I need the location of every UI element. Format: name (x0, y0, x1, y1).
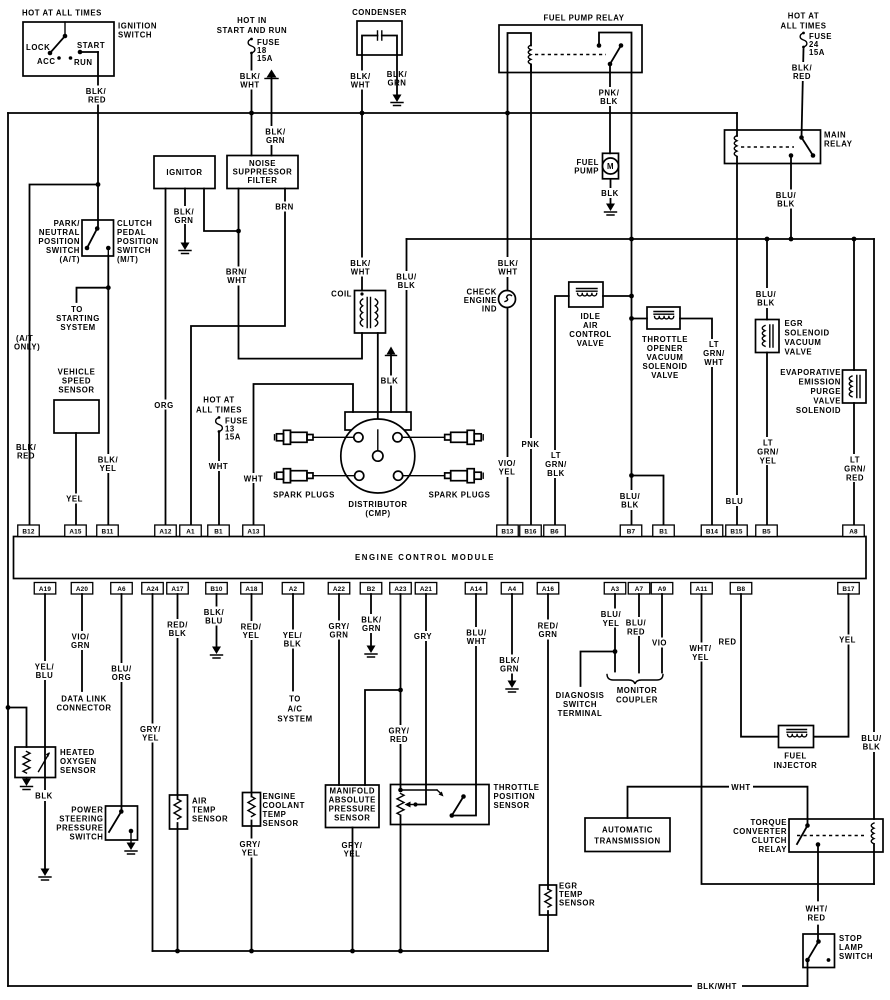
label BLK/RED fuse24 (790, 62, 815, 81)
label power steering pressure switch (56, 806, 103, 842)
svg-text:MONITOR: MONITOR (617, 686, 658, 695)
wire A4 BLK/GRN ground (511, 594, 513, 680)
svg-text:THROTTLE: THROTTLE (494, 783, 540, 792)
fuel pump M1 (574, 153, 618, 179)
svg-text:DIAGNOSIS: DIAGNOSIS (556, 691, 605, 700)
label YEL/BLU A19 (31, 661, 59, 680)
pin A14 ECM bottom (465, 583, 487, 595)
svg-text:LT: LT (763, 439, 773, 448)
svg-text:SWITCH: SWITCH (46, 246, 80, 255)
svg-text:B11: B11 (102, 529, 114, 536)
label RED/BLK A17 (165, 619, 191, 638)
svg-text:GRN: GRN (71, 641, 90, 650)
svg-text:WHT: WHT (227, 276, 246, 285)
pin A4 ECM bottom (501, 583, 523, 595)
label VIO A9 (649, 638, 671, 648)
label BLK/BLU B10 (202, 607, 228, 626)
pin A2 ECM bottom (282, 583, 304, 595)
label YEL B17 (837, 635, 858, 645)
svg-text:IDLE: IDLE (581, 312, 601, 321)
svg-text:PARK/: PARK/ (54, 219, 81, 228)
ground power steering switch (125, 843, 137, 855)
label BLU B15 (724, 495, 746, 506)
svg-text:SOLENOID: SOLENOID (642, 362, 687, 371)
svg-text:B1: B1 (659, 529, 668, 536)
svg-text:BLK: BLK (398, 281, 416, 290)
svg-text:VALVE: VALVE (577, 339, 605, 348)
svg-text:WHT: WHT (244, 475, 263, 484)
label BLK/YEL (96, 454, 121, 473)
svg-text:ALL TIMES: ALL TIMES (196, 406, 242, 415)
pin B8 ECM bottom (730, 583, 752, 595)
label park/neutral position switch (38, 219, 80, 264)
label SPARK PLUGS left (273, 491, 335, 500)
wire BLK arrow to distributor (390, 355, 392, 412)
svg-text:A1: A1 (186, 529, 195, 536)
wire condenser ground lead (396, 55, 398, 94)
evaporative emission purge valve solenoid (843, 370, 867, 403)
power steering pressure switch S2 (106, 806, 138, 842)
torque converter clutch relay K3 (789, 819, 883, 852)
svg-text:WHT: WHT (498, 268, 517, 277)
arrow up BLK/GRN feed (265, 70, 278, 79)
ground ignitor (179, 243, 191, 254)
svg-text:SPEED: SPEED (62, 377, 91, 386)
pin B16 ECM top (520, 525, 542, 537)
svg-text:YEL: YEL (760, 457, 777, 466)
node junction MAP bus3 (350, 949, 355, 954)
svg-text:B7: B7 (627, 529, 636, 536)
label WHT A13 (243, 473, 264, 484)
svg-text:AUTOMATIC: AUTOMATIC (602, 826, 653, 835)
label BLU/BLK egr svv (753, 288, 780, 308)
label GRY/YEL A24 (138, 724, 164, 743)
label to A/C system (277, 695, 312, 724)
wire fuel pump BLK ground lead (610, 179, 612, 203)
svg-text:CLUTCH: CLUTCH (752, 836, 787, 845)
pin A11 ECM bottom (691, 583, 713, 595)
svg-text:A14: A14 (470, 586, 483, 593)
label BLU/BLK main relay (774, 190, 799, 209)
svg-text:COIL: COIL (331, 290, 352, 299)
label DISTRIBUTOR (CMP) (348, 500, 407, 518)
svg-text:BLK: BLK (169, 629, 187, 638)
svg-text:ENGINE CONTROL MODULE: ENGINE CONTROL MODULE (355, 553, 495, 562)
svg-text:AIR: AIR (583, 321, 598, 330)
pin B15 ECM top (726, 525, 748, 537)
wire A23 GRY/RED to throttle sensor (400, 594, 402, 951)
wire A22 GRY/GRN to MAP sensor (338, 594, 340, 785)
svg-text:HEATED: HEATED (60, 748, 95, 757)
stop lamp switch S4 (803, 934, 835, 986)
wire PNK/BLK relay to fuel pump (609, 64, 611, 153)
svg-text:A4: A4 (508, 586, 517, 593)
svg-text:WHT: WHT (704, 358, 723, 367)
wire ignition BLK/RED vertical (97, 52, 99, 228)
label BLK distributor (379, 376, 400, 386)
pin A13 ECM top (243, 525, 265, 537)
pin A16 ECM bottom (537, 583, 559, 595)
svg-text:SOLENOID: SOLENOID (785, 329, 830, 338)
svg-text:IGNITOR: IGNITOR (166, 168, 202, 177)
pin A21 ECM bottom (415, 583, 437, 595)
svg-text:POSITION: POSITION (494, 792, 536, 801)
svg-text:TEMP: TEMP (263, 810, 287, 819)
ground fuel pump (605, 204, 617, 216)
label LT GRN/BLK B6 (544, 450, 569, 478)
label BLK/WHT check engine (495, 257, 522, 277)
wire MAP sensor output to bus3 (352, 828, 354, 952)
svg-text:TORQUE: TORQUE (750, 818, 787, 827)
pin A9 ECM bottom (651, 583, 673, 595)
svg-text:YEL: YEL (142, 734, 159, 743)
svg-text:RED: RED (390, 735, 408, 744)
label BRN (274, 202, 295, 212)
svg-text:B6: B6 (550, 529, 559, 536)
svg-text:PEDAL: PEDAL (117, 228, 146, 237)
fuse 18 15A (248, 38, 280, 63)
svg-text:WHT/: WHT/ (805, 905, 827, 914)
label WHT/RED (805, 905, 827, 923)
svg-text:OPENER: OPENER (647, 344, 683, 353)
label BRN/WHT (222, 267, 251, 286)
EGR solenoid vacuum valve (756, 320, 780, 353)
svg-text:B15: B15 (730, 529, 743, 536)
wire B5 LT GRN/YEL from EGR solenoid valve (766, 353, 768, 526)
svg-text:B2: B2 (367, 586, 376, 593)
node junction B1 branch (629, 473, 634, 478)
ignitor U2 (154, 156, 215, 189)
svg-text:A6: A6 (117, 586, 126, 593)
fuse 24 15A (800, 32, 832, 57)
label throttle opener vacuum solenoid valve (642, 335, 688, 380)
svg-text:RED: RED (627, 628, 645, 637)
wire ignitor right pin to brn/wht (204, 189, 239, 232)
svg-text:TO: TO (289, 695, 301, 704)
wire right rail BLU/BLK bus2 to TCC relay coil (873, 239, 875, 819)
check engine indicator lamp (464, 288, 516, 314)
svg-text:A23: A23 (394, 586, 407, 593)
wire A2 YEL/BLK to AC system (292, 594, 294, 691)
svg-text:STARTING: STARTING (56, 314, 100, 323)
label BLU/RED A7 (624, 617, 650, 637)
svg-text:TRANSMISSION: TRANSMISSION (594, 837, 660, 846)
label BLU/BLK distributor feed (393, 271, 420, 290)
pin B14 ECM top (701, 525, 723, 537)
spark plug lower right (445, 469, 484, 483)
svg-text:THROTTLE: THROTTLE (642, 335, 688, 344)
svg-text:(A/T): (A/T) (59, 255, 80, 264)
wire A19 YEL/BLU to oxygen sensor (44, 594, 46, 868)
svg-text:BLK: BLK (757, 299, 775, 308)
label to starting system (56, 305, 100, 332)
svg-text:ORG: ORG (112, 673, 131, 682)
svg-text:A21: A21 (420, 586, 433, 593)
wire bus3 sensor ground horizontal (153, 950, 549, 952)
noise suppressor filter U3 (227, 156, 298, 189)
ground B10 (211, 647, 223, 659)
svg-text:M: M (607, 162, 614, 171)
svg-text:CLUTCH: CLUTCH (117, 219, 152, 228)
pin B10 ECM bottom (206, 583, 228, 595)
pin A23 ECM bottom (390, 583, 412, 595)
label LT GRN/YEL B5 (756, 437, 781, 466)
ground A4 (506, 681, 518, 693)
ground A19 oxygen sensor signal (39, 869, 51, 881)
heated oxygen sensor B1a (15, 747, 56, 778)
svg-text:FILTER: FILTER (247, 176, 277, 185)
spark plug upper left (275, 430, 314, 444)
wire A18 RED/YEL to coolant temp sensor (251, 594, 253, 951)
svg-text:WHT: WHT (467, 637, 486, 646)
svg-text:B12: B12 (22, 529, 35, 536)
label GRY/GRN A22 (327, 621, 353, 640)
engine coolant temp sensor R3 (243, 793, 261, 827)
label LT GRN/RED A8 (843, 454, 868, 483)
wire B1 WHT from fuse13 (218, 433, 220, 525)
wire A3 BLU/YEL monitor coupler (614, 594, 616, 672)
pin A12 ECM top (155, 525, 177, 537)
svg-text:BLK: BLK (284, 640, 302, 649)
label BLU/YEL A3 (599, 609, 625, 629)
svg-text:YEL: YEL (692, 653, 709, 662)
label VIO/GRN A20 (68, 631, 93, 650)
svg-text:GRN: GRN (500, 665, 519, 674)
label LT GRN/WHT B14 (702, 339, 727, 367)
svg-text:BLK: BLK (601, 189, 619, 198)
svg-text:A19: A19 (39, 586, 52, 593)
svg-text:PRESSURE: PRESSURE (329, 805, 376, 814)
svg-text:INJECTOR: INJECTOR (774, 761, 818, 770)
label SPARK PLUGS right (429, 491, 491, 500)
throttle position sensor (391, 785, 490, 825)
wire fuse18 BLK/WHT to noise filter (251, 53, 253, 156)
label BLU/BLK right rail (858, 732, 885, 752)
svg-text:TERMINAL: TERMINAL (558, 709, 603, 718)
svg-text:SWITCH: SWITCH (839, 952, 873, 961)
svg-text:B10: B10 (210, 586, 223, 593)
svg-text:CONDENSER: CONDENSER (352, 8, 407, 17)
svg-text:A2: A2 (289, 586, 298, 593)
wire A15 YEL from speed sensor (75, 433, 77, 525)
pin A19 ECM bottom (34, 583, 56, 595)
EGR temp sensor R5 (540, 885, 557, 915)
wire BRN from noise filter to A1 (191, 189, 285, 526)
label EGR temp sensor (559, 882, 595, 908)
svg-text:COOLANT: COOLANT (263, 801, 305, 810)
svg-text:GRN: GRN (330, 631, 349, 640)
ignition switch box (22, 9, 157, 77)
label GRY/RED A23 (387, 725, 413, 744)
svg-text:GRY: GRY (414, 632, 433, 641)
pin A18 ECM bottom (241, 583, 263, 595)
wire PNK fuel pump relay coil to B16 (530, 65, 532, 526)
svg-text:YEL: YEL (344, 850, 361, 859)
pin B1 ECM top (208, 525, 230, 537)
label BLU/ORG A6 (109, 663, 134, 682)
svg-text:SENSOR: SENSOR (192, 815, 228, 824)
ignition switch contacts (26, 22, 105, 67)
svg-text:HOT IN: HOT IN (237, 16, 267, 25)
label WHT/YEL A11 (688, 643, 715, 663)
wire spark plug upper left (313, 436, 354, 438)
monitor coupler brace (607, 675, 663, 685)
wire MAP sensor branch from A23 (365, 690, 401, 785)
pin A7 ECM bottom (628, 583, 650, 595)
svg-text:B17: B17 (842, 586, 855, 593)
wire A6 BLU/ORG to power steering switch (121, 594, 123, 811)
wire TCC relay output WHT/RED (817, 845, 819, 942)
svg-text:A22: A22 (333, 586, 346, 593)
wire fuse24 BLK/RED to main relay (802, 49, 804, 138)
svg-text:SENSOR: SENSOR (60, 766, 96, 775)
svg-text:LT: LT (709, 340, 719, 349)
wire A14 BLU/WHT to throttle switch (452, 594, 476, 816)
svg-text:POSITION: POSITION (117, 237, 159, 246)
svg-text:SYSTEM: SYSTEM (277, 715, 312, 724)
svg-text:VACUUM: VACUUM (647, 353, 684, 362)
svg-text:VIO: VIO (652, 639, 667, 648)
svg-text:YEL: YEL (839, 636, 856, 645)
label PNK/BLK (596, 87, 622, 106)
svg-text:BLK: BLK (600, 97, 618, 106)
node junction A17 bus3 (175, 949, 180, 954)
svg-text:ORG: ORG (154, 401, 173, 410)
svg-text:SPARK PLUGS: SPARK PLUGS (429, 491, 491, 500)
wire bus2 main relay output horizontal (407, 238, 875, 240)
idle air control valve (569, 282, 603, 307)
wire B8 RED to fuel injector (741, 594, 779, 737)
condenser C1 (352, 8, 407, 55)
air temp sensor R2 (170, 795, 188, 829)
svg-text:GRN: GRN (539, 630, 558, 639)
label BLK/WHT bottom bus (692, 980, 742, 992)
svg-text:BLK: BLK (35, 792, 53, 801)
svg-text:A/C: A/C (287, 705, 302, 714)
ground condenser (391, 95, 403, 106)
svg-text:PNK: PNK (521, 440, 539, 449)
wire B14 LT GRN/WHT from throttle opener valve (680, 319, 712, 526)
label HOT AT ALL TIMES fuse24 (781, 12, 827, 31)
node junction ignitor brn/wht (236, 229, 241, 234)
wire main relay output to bus2 (790, 156, 792, 240)
svg-text:CONVERTER: CONVERTER (733, 827, 787, 836)
svg-text:15A: 15A (809, 48, 825, 57)
label VIO/YEL B13 (494, 457, 521, 477)
svg-text:LT: LT (551, 451, 561, 460)
svg-text:LT: LT (850, 456, 860, 465)
label GRY/YEL MAP (342, 841, 363, 859)
label evaporative emission purge valve solenoid (780, 368, 841, 415)
spark plug lower left (275, 469, 314, 483)
svg-text:TEMP: TEMP (192, 806, 216, 815)
wire A9 VIO monitor coupler (661, 594, 663, 673)
label (A/T ONLY) (14, 334, 40, 352)
ground B2 (365, 646, 377, 658)
svg-text:BLU: BLU (726, 497, 744, 506)
wire branch heater feed from left rail (8, 708, 27, 748)
svg-text:ALL TIMES: ALL TIMES (781, 22, 827, 31)
node junction starting system (106, 285, 111, 290)
svg-text:SWITCH: SWITCH (118, 31, 152, 40)
fuse 13 15A (216, 416, 248, 441)
svg-text:RED: RED (718, 638, 736, 647)
svg-text:IGNITION: IGNITION (118, 22, 157, 31)
svg-text:WHT: WHT (240, 81, 259, 90)
svg-text:A16: A16 (542, 586, 555, 593)
manifold absolute pressure sensor (326, 785, 380, 828)
distributor CMP circle (341, 419, 415, 493)
wire A24 GRY/YEL to sensor ground bus (152, 594, 154, 951)
pin A22 ECM bottom (328, 583, 350, 595)
svg-text:NEUTRAL: NEUTRAL (39, 228, 80, 237)
node junction iacv (629, 294, 634, 299)
pin A3 ECM bottom (604, 583, 626, 595)
svg-text:OXYGEN: OXYGEN (60, 757, 97, 766)
svg-text:A11: A11 (696, 586, 708, 593)
wire EGR solenoid valve feed (766, 239, 768, 320)
svg-text:GRN/: GRN/ (703, 349, 725, 358)
svg-text:A20: A20 (76, 586, 89, 593)
svg-text:SYSTEM: SYSTEM (60, 323, 95, 332)
label fuel injector (774, 752, 818, 771)
svg-text:BLK: BLK (381, 377, 399, 386)
pin B6 ECM top (544, 525, 566, 537)
svg-text:START AND RUN: START AND RUN (217, 26, 287, 35)
svg-text:A9: A9 (658, 586, 667, 593)
svg-text:LOCK: LOCK (26, 43, 50, 52)
svg-text:SENSOR: SENSOR (58, 386, 94, 395)
svg-text:A15: A15 (69, 529, 82, 536)
svg-text:GRN/: GRN/ (545, 460, 567, 469)
wire B7 BLU/BLK from fuel pump relay (631, 73, 633, 526)
label throttle position sensor (494, 783, 540, 810)
pin B1 ECM top (653, 525, 675, 537)
svg-text:SWITCH: SWITCH (117, 246, 151, 255)
wire idle air valve to B7 line (603, 295, 632, 297)
svg-text:BLK: BLK (777, 200, 795, 209)
svg-text:BLU: BLU (205, 617, 223, 626)
label RED B8 (718, 638, 736, 647)
svg-text:SOLENOID: SOLENOID (796, 406, 841, 415)
wire throttle opener valve left (632, 318, 648, 320)
label clutch pedal position switch (117, 219, 159, 264)
svg-text:COUPLER: COUPLER (616, 696, 658, 705)
label WHT B1 (207, 461, 231, 471)
wire to starting system branch (77, 288, 109, 302)
svg-text:CONTROL: CONTROL (569, 330, 611, 339)
distributor housing (345, 412, 411, 430)
svg-text:A18: A18 (245, 586, 258, 593)
label heated oxygen sensor (60, 748, 97, 775)
label BLK/GRN condenser (385, 69, 410, 88)
svg-text:GRN: GRN (362, 624, 381, 633)
svg-text:VACUUM: VACUUM (785, 338, 822, 347)
svg-text:SWITCH: SWITCH (563, 700, 597, 709)
pin A17 ECM bottom (167, 583, 189, 595)
label BLK fuel pump (599, 188, 621, 198)
wire BLK/GRN arrow feed to noise filter (271, 78, 273, 156)
wire B10 BLK/BLU ground (216, 594, 218, 646)
label YEL/BLK A2 (280, 630, 306, 649)
svg-text:POWER: POWER (71, 806, 103, 815)
label RED/YEL A18 (239, 621, 265, 640)
node junction left rail heater (6, 705, 11, 710)
arrow up BLK distributor (386, 347, 397, 356)
svg-text:RED: RED (846, 474, 864, 483)
fuel injector solenoid (779, 726, 814, 748)
node junction A18 bus3 (249, 949, 254, 954)
